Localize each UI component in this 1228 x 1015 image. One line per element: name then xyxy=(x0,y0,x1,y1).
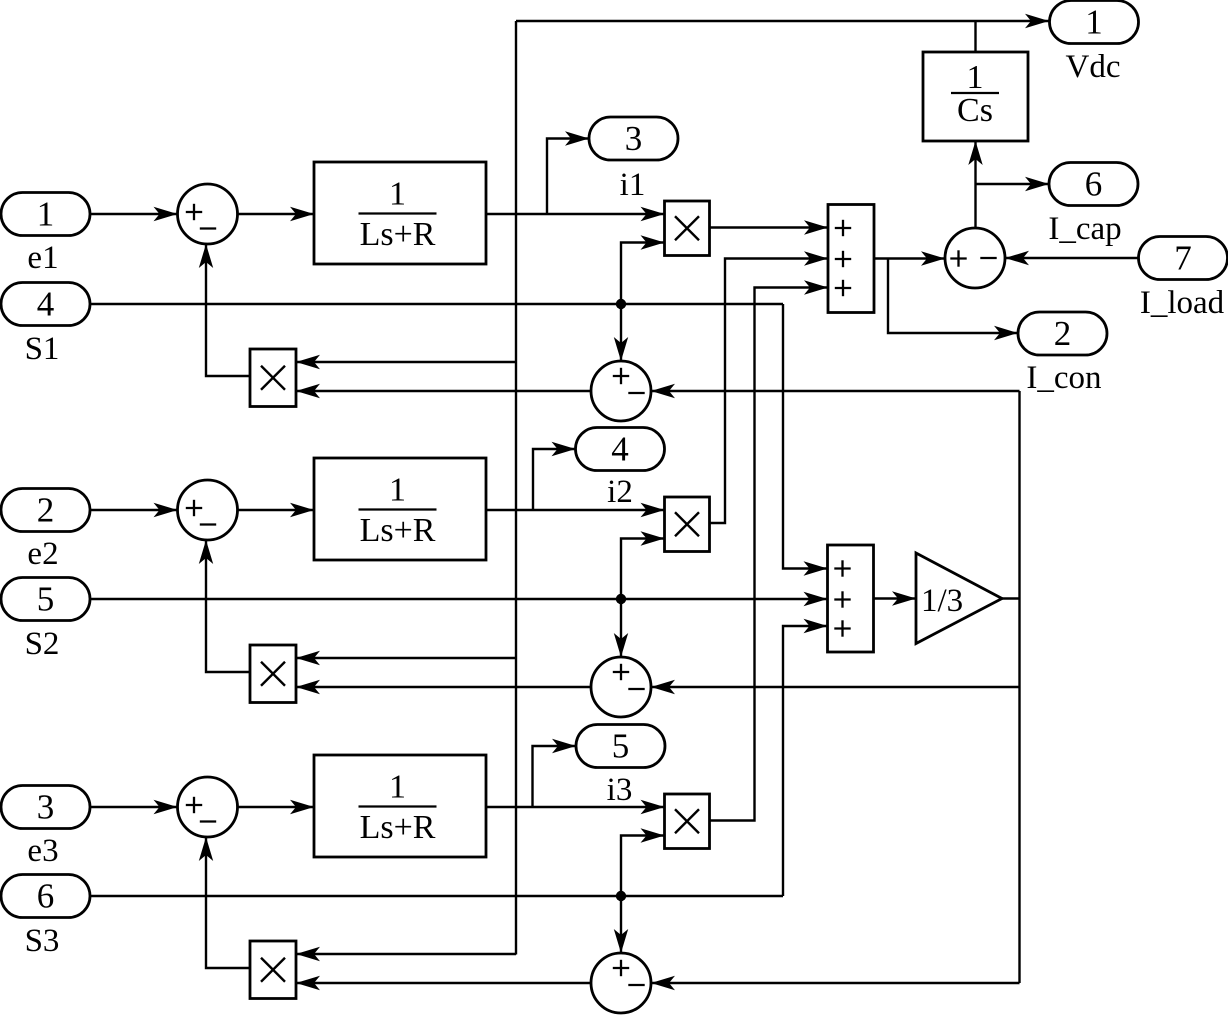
svg-text:6: 6 xyxy=(37,877,55,916)
product block phase 2 xyxy=(665,497,710,552)
wire Add1 output to sum junction xyxy=(874,251,945,265)
svg-text:1: 1 xyxy=(389,176,406,213)
label S2 xyxy=(25,626,60,662)
svg-text:2: 2 xyxy=(37,491,55,530)
svg-text:Vdc: Vdc xyxy=(1066,49,1121,85)
svg-text:1: 1 xyxy=(967,59,984,96)
sum circle phase 3 (+ -) xyxy=(178,777,238,837)
wire S1 riser to product xyxy=(621,235,665,304)
sum block Add2 (+++) xyxy=(828,545,874,652)
svg-text:Ls+R: Ls+R xyxy=(360,512,436,549)
wire S3 riser to product xyxy=(621,828,665,896)
wire branch down to I_con port xyxy=(888,259,1018,341)
transfer-function block 1/(Ls+R) phase 1 xyxy=(314,162,486,264)
feedback multiply block phase 2 xyxy=(250,645,296,703)
wire I_load into sum xyxy=(1005,251,1139,265)
wire feedback multiply output up to sum 1 xyxy=(199,244,250,376)
input port e1 xyxy=(1,193,90,236)
label Vdc xyxy=(1066,49,1121,85)
output port 1 Vdc xyxy=(1050,1,1139,44)
wire I_cap up into 1/Cs xyxy=(968,141,982,228)
wire product3 output riser into Add1 xyxy=(710,280,829,820)
sum circle S1 deviation (+ -) xyxy=(591,361,651,421)
wire e2 to sum xyxy=(90,503,178,517)
label e2 xyxy=(27,536,58,572)
wire S3 horizontal xyxy=(90,895,783,897)
wire e1 to sum xyxy=(90,207,178,221)
gain block 1/3 xyxy=(916,553,1002,644)
output port 2 I_con xyxy=(1018,312,1107,355)
output port 3 i1 xyxy=(589,117,678,160)
junction dot S3 xyxy=(616,891,626,901)
svg-text:I_con: I_con xyxy=(1026,360,1101,396)
sum junction U_sum (+ -) for capacitor current xyxy=(945,228,1005,288)
wire sum to L-R block phase 2 xyxy=(238,503,315,517)
wire S3 sum output to feedback multiply xyxy=(296,976,591,990)
svg-text:4: 4 xyxy=(611,430,629,469)
product block phase 3 xyxy=(665,794,710,849)
svg-text:1: 1 xyxy=(37,195,55,234)
wire current i3 output xyxy=(486,800,665,814)
svg-text:e3: e3 xyxy=(27,833,58,869)
input port e2 xyxy=(1,489,90,532)
svg-text:5: 5 xyxy=(37,580,55,619)
wire S1 horizontal xyxy=(90,303,783,305)
label S3 xyxy=(25,923,60,959)
wire S2 sum output to feedback multiply xyxy=(296,680,591,694)
wire Vdc output up from 1/Cs xyxy=(974,22,976,52)
wire sum to L-R block phase 3 xyxy=(238,800,315,814)
svg-text:1: 1 xyxy=(1085,3,1103,42)
wire right-feedback into S3 sum xyxy=(651,976,1020,990)
output port 4 i2 xyxy=(576,428,665,471)
output port 6 I_cap xyxy=(1049,163,1138,206)
svg-text:7: 7 xyxy=(1174,239,1192,278)
wire S3 down into right sum xyxy=(614,896,628,953)
wire Vdc tap into feedback multiply 1 xyxy=(296,355,516,369)
svg-text:4: 4 xyxy=(37,285,55,324)
svg-text:Ls+R: Ls+R xyxy=(360,216,436,253)
svg-text:I_cap: I_cap xyxy=(1048,211,1121,247)
wire product2 output riser into Add1 xyxy=(710,251,829,523)
junction dot S1 xyxy=(616,299,626,309)
svg-text:1: 1 xyxy=(389,769,406,806)
wire branch up to i2 port xyxy=(533,442,576,510)
wire S1 down into right sum xyxy=(614,304,628,361)
input port 7 I_load xyxy=(1139,237,1228,280)
wire Vdc tap into feedback multiply 2 xyxy=(296,651,516,665)
svg-text:6: 6 xyxy=(1085,165,1103,204)
svg-text:S3: S3 xyxy=(25,923,60,959)
input port S2 xyxy=(1,578,90,621)
sum circle phase 1 (+ -) xyxy=(178,184,238,244)
feedback multiply block phase 3 xyxy=(250,941,296,999)
input port S1 xyxy=(1,283,90,326)
input port S3 xyxy=(1,875,90,918)
wire feedback multiply output up to sum 2 xyxy=(199,540,250,672)
svg-text:e1: e1 xyxy=(27,240,58,276)
input port e3 xyxy=(1,786,90,829)
label i3 xyxy=(607,772,633,808)
label I_cap xyxy=(1048,211,1121,247)
wire arrow into port Vdc xyxy=(1025,14,1049,28)
sum block Add1 (+++) xyxy=(828,205,874,313)
wire branch up to i1 port xyxy=(547,131,589,214)
wire Add2 output to gain xyxy=(874,591,917,605)
wire right-feedback into S2 sum xyxy=(651,680,1020,694)
wire S1 sum output to feedback multiply xyxy=(296,384,591,398)
wire Vdc top horizontal xyxy=(516,20,1049,22)
svg-text:S1: S1 xyxy=(25,331,60,367)
svg-text:i1: i1 xyxy=(620,167,646,203)
svg-text:1: 1 xyxy=(389,472,406,509)
sum circle phase 2 (+ -) xyxy=(178,480,238,540)
svg-text:1/3: 1/3 xyxy=(921,583,963,619)
svg-text:i2: i2 xyxy=(607,474,633,510)
wire S2 horizontal into Add2 xyxy=(90,592,828,606)
wire S2 riser to product xyxy=(621,531,665,599)
svg-text:Ls+R: Ls+R xyxy=(360,809,436,846)
wire Vdc tap into feedback multiply 3 xyxy=(296,947,516,961)
transfer-function block 1/(Ls+R) phase 3 xyxy=(314,755,486,857)
svg-text:3: 3 xyxy=(37,788,55,827)
wire product1 output into Add1 xyxy=(710,220,829,234)
svg-text:i3: i3 xyxy=(607,772,633,808)
wire Vdc feedback vertical drop xyxy=(515,21,517,955)
transfer-function block 1/Cs xyxy=(923,52,1028,141)
svg-text:5: 5 xyxy=(612,727,630,766)
junction dot S2 xyxy=(616,594,626,604)
svg-text:3: 3 xyxy=(625,119,643,158)
label S1 xyxy=(25,331,60,367)
product block phase 1 xyxy=(665,201,710,256)
svg-text:I_load: I_load xyxy=(1140,285,1225,321)
sum circle S2 deviation (+ -) xyxy=(591,657,651,717)
sum circle S3 deviation (+ -) xyxy=(591,953,651,1013)
output port 5 i3 xyxy=(576,725,665,768)
wire S3 rise to Add2 bottom input xyxy=(783,619,828,896)
wire right-feedback into S1 sum xyxy=(651,384,1020,398)
wire current i2 output xyxy=(486,503,665,517)
wire right feedback vertical xyxy=(1018,391,1020,983)
feedback multiply block phase 1 xyxy=(250,349,296,407)
svg-text:e2: e2 xyxy=(27,536,58,572)
svg-text:S2: S2 xyxy=(25,626,60,662)
label I_load xyxy=(1140,285,1225,321)
label e1 xyxy=(27,240,58,276)
svg-text:2: 2 xyxy=(1054,314,1072,353)
label i1 xyxy=(620,167,646,203)
wire branch to I_cap port xyxy=(976,177,1050,191)
svg-text:Cs: Cs xyxy=(957,92,993,129)
wire feedback multiply output up to sum 3 xyxy=(199,837,250,968)
wire sum to L-R block phase 1 xyxy=(238,207,315,221)
wire e3 to sum xyxy=(90,800,178,814)
wire S1 drop to Add2 top input xyxy=(783,304,828,576)
wire current i1 output xyxy=(486,207,665,221)
transfer-function block 1/(Ls+R) phase 2 xyxy=(314,458,486,560)
wire S2 down into right sum xyxy=(614,599,628,657)
wire branch up to i3 port xyxy=(533,739,577,807)
wire gain output to right feedback vertical xyxy=(1002,597,1020,599)
label i2 xyxy=(607,474,633,510)
label e3 xyxy=(27,833,58,869)
label I_con xyxy=(1026,360,1101,396)
